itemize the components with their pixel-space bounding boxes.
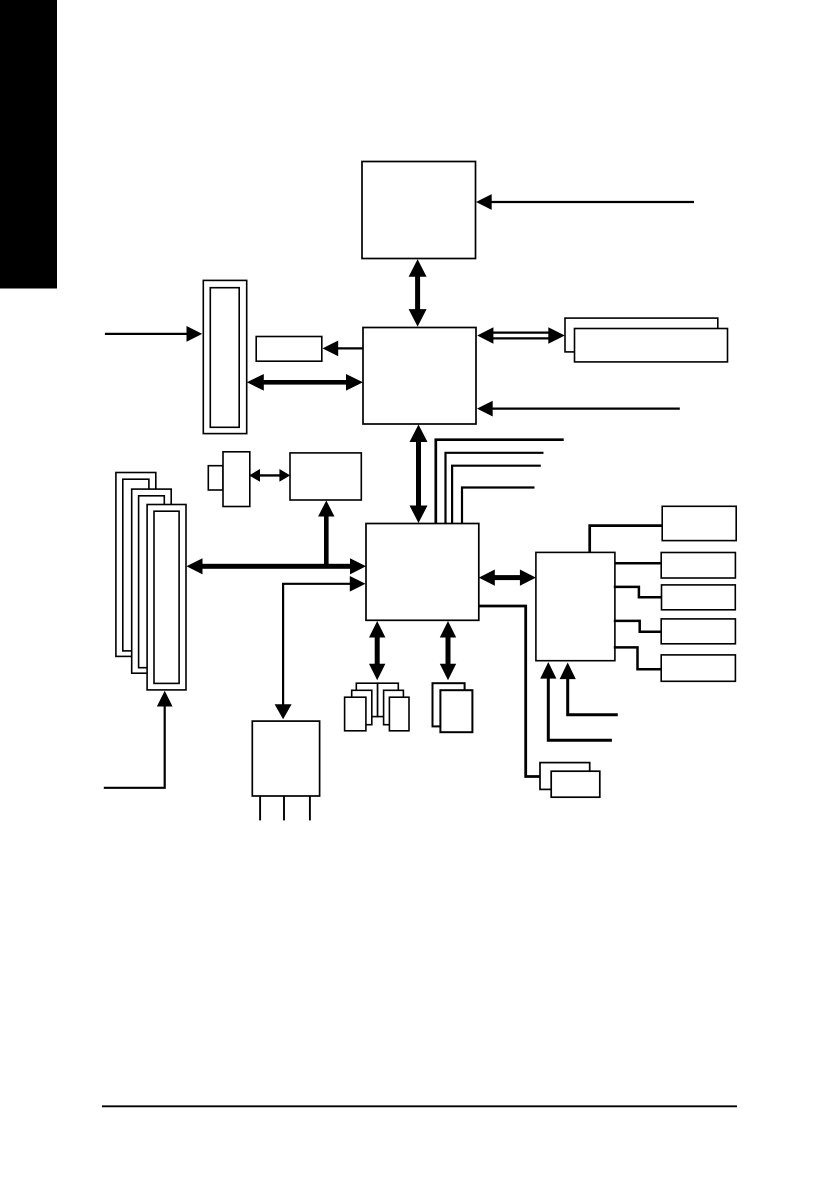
wire: connector ITE to right box 2 [615,562,661,565]
chapter tab (black) [0,0,57,289]
BIOS chip icon [208,452,250,507]
south bridge box [366,524,479,621]
DDR DIMM slots (two stacked) [565,318,728,362]
wire: L-line 4 from south bridge top [462,488,535,524]
ITE super I/O box [536,552,615,660]
wire: connector ITE to right box 5 [614,647,661,669]
wire: chip to BIOS box small double arrow [249,469,290,482]
wire: south bridge down double arrow A [369,621,385,680]
wire: bottom-left L-arrow up into PCI slot [104,691,173,788]
wire: south bridge down double arrow B [440,621,456,680]
wire: north bridge to south bridge thick double arrow [410,425,428,524]
bottom-right stacked boxes [540,763,600,798]
right box 3 [662,585,736,610]
right box 4 [661,619,735,644]
PCI slot 3 (front) [147,505,186,690]
wire: L-line 2 from south bridge top [446,453,544,524]
AGP slot (double outline) [203,280,246,433]
wire: arrow into north bridge right edge [477,401,680,417]
CPU box [362,162,476,259]
wire: arrow into CPU right edge [476,194,694,210]
wire: CPU to north bridge thick double arrow [409,259,427,326]
LAN chip box with three legs [252,721,319,820]
right box 2 [661,553,735,579]
right box 1 [662,506,736,540]
wire: south bridge to ITE thick double arrow [479,570,536,586]
wire: connector ITE to right box 3 [614,587,662,597]
wire: thick arrow up from PCI bus into BIOS box [318,501,334,567]
footer rule [102,1105,737,1107]
wire: AGP to north bridge thick double arrow [247,374,363,391]
pages pair below arrow B [433,683,473,732]
BIOS box [290,453,361,500]
wire: connector ITE to right box 4 [614,621,661,632]
north bridge box [363,328,476,425]
wire: L-line 3 from south bridge top [452,466,541,524]
wire: connector ITE to right box 1 [590,526,663,553]
wire: thin line into south bridge and down to LAN [275,576,366,719]
wire: arrow from north bridge into small box [323,341,364,357]
PCI slot 1 (back) [116,473,156,657]
PCI slot 2 (middle) [132,489,172,673]
wire: arrow into AGP slot from left [105,326,202,342]
wire: L-arrow up into ITE bottom (left) [540,662,612,740]
wire: L-line 1 from south bridge top [436,440,564,524]
wire: PCI bus thick double arrow [187,558,367,574]
wire: south bridge line to bottom-right boxes [479,606,540,777]
wire: north bridge to DIMM double-line arrow [477,327,565,344]
wire: L-arrow up into ITE bottom (right) [560,663,618,715]
right box 5 [661,655,735,681]
small box right of AGP [256,337,322,362]
USB ports cluster (six pages) [345,683,409,731]
